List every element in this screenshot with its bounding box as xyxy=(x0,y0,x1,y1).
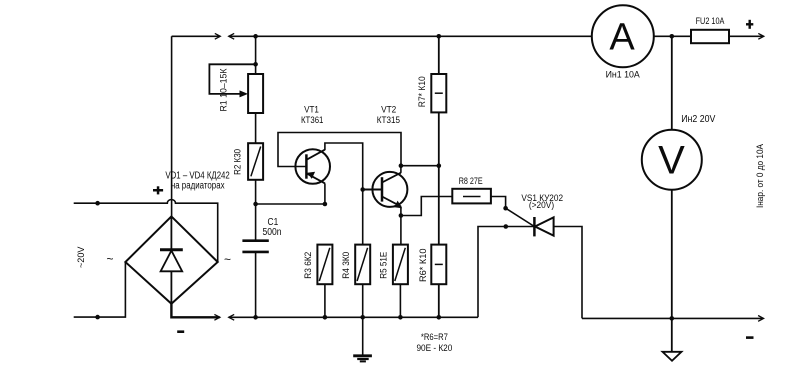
svg-text:R8 27Е: R8 27Е xyxy=(459,176,483,187)
svg-text:КТ315: КТ315 xyxy=(377,115,400,125)
wire R1-R2 lead xyxy=(255,113,257,143)
wire bridge minus to bottom rail xyxy=(171,304,219,318)
resistor R8 xyxy=(452,189,491,204)
node R5 bottom junction xyxy=(398,315,403,320)
wire VS1 anode to bottom rail xyxy=(554,227,582,319)
wire VS1 gate diagonal xyxy=(506,208,535,226)
wire VT2 emitter jog to R8 xyxy=(401,197,452,216)
ground chassis below R4 xyxy=(362,317,364,355)
voltmeter Ин2 circle xyxy=(642,130,702,190)
R1 wiper arrowhead xyxy=(240,90,249,97)
node voltmeter bottom junction xyxy=(670,316,675,321)
svg-text:~: ~ xyxy=(107,252,114,266)
transistor VT1 circle xyxy=(295,149,330,184)
svg-text:R6* К10: R6* К10 xyxy=(418,249,428,283)
resistor R7 xyxy=(431,74,446,112)
node voltmeter tap junction xyxy=(670,34,675,39)
node gate corner xyxy=(503,206,508,211)
node VT2 base junction xyxy=(360,187,365,192)
svg-text:~: ~ xyxy=(224,253,231,267)
svg-text:(>20V): (>20V) xyxy=(529,200,554,211)
resistor R4 xyxy=(355,245,370,285)
svg-text:на радиаторах: на радиаторах xyxy=(171,180,225,191)
connector arrow right-pointing (top rail) xyxy=(215,33,221,39)
wire VT2 collector up xyxy=(400,166,402,173)
wire bottom rail right segment xyxy=(582,317,763,319)
svg-text:Ин1 10А: Ин1 10А xyxy=(606,69,641,80)
connector arrow left-pointing (top rail) xyxy=(229,33,235,39)
earth ground right xyxy=(671,318,673,351)
node VT2 emitter junction xyxy=(399,213,404,218)
wire bottom rail left segment xyxy=(229,316,478,318)
resistor R6 xyxy=(431,245,446,285)
wire VT1 emitter down xyxy=(324,183,326,204)
node VT1 emitter / R3 junction xyxy=(323,202,328,207)
wire VT2 collector to R7 node xyxy=(401,165,439,167)
resistor R1 (potentiometer) xyxy=(248,74,263,113)
VT1 emitter diagonal with arrow xyxy=(306,173,325,183)
wire R8 right to gate xyxy=(491,197,506,209)
label - (bridge) xyxy=(177,330,184,333)
wire R5 bottom lead xyxy=(399,284,401,317)
resistor R3 xyxy=(317,245,332,285)
svg-text:R4 3К0: R4 3К0 xyxy=(341,252,351,279)
minus output arrowhead xyxy=(758,316,764,322)
node on cathode wire xyxy=(504,224,509,229)
wire VT2 base to R4 xyxy=(362,190,364,245)
label - output xyxy=(746,336,754,339)
wire fuse to plus output xyxy=(729,35,764,37)
node R1 top junction xyxy=(253,34,258,39)
wire voltmeter top lead xyxy=(671,36,673,129)
VT1 collector diagonal xyxy=(306,150,325,160)
label + output xyxy=(746,20,753,29)
wire R4 bottom lead xyxy=(362,284,364,317)
wire R7 top lead xyxy=(438,36,440,74)
svg-text:VT1: VT1 xyxy=(304,105,319,115)
svg-text:Iнар. от 0 до 10А: Iнар. от 0 до 10А xyxy=(755,143,766,208)
resistor R2 xyxy=(248,143,263,180)
transistor VT2 circle xyxy=(372,172,407,207)
svg-text:R5 51Е: R5 51Е xyxy=(379,252,389,279)
wire R1 top lead xyxy=(255,36,257,74)
wire R1 wiper loop xyxy=(209,64,255,94)
wire bridge plus vertical xyxy=(171,36,173,216)
node A junction R2/C1 xyxy=(253,202,258,207)
thyristor VS1 cathode bar xyxy=(533,217,536,236)
wire R7 bottom lead xyxy=(438,112,440,165)
connector arrow right-pointing (bottom rail) xyxy=(214,314,220,320)
svg-text:R7* К10: R7* К10 xyxy=(417,76,427,107)
wire bridge axis xyxy=(170,216,172,303)
svg-text:R1 10–15К: R1 10–15К xyxy=(219,68,229,112)
svg-text:А: А xyxy=(609,17,635,59)
VT2 base bar xyxy=(381,177,384,201)
wire node A horizontal xyxy=(256,203,325,205)
wire top rail right segment xyxy=(229,35,592,37)
label + (bridge) xyxy=(153,186,163,194)
ammeter Ин1 circle xyxy=(592,5,654,67)
wire voltmeter bottom lead xyxy=(671,190,673,319)
connector arrow left-pointing (bottom rail) xyxy=(229,314,235,320)
wire top rail left segment xyxy=(172,35,220,37)
VT2 emitter diagonal with arrow xyxy=(382,197,401,207)
node R7 bottom junction xyxy=(437,163,442,168)
node R7 top junction xyxy=(437,34,442,39)
wire VS1 cathode side xyxy=(478,227,534,318)
wire R7 node to R6 xyxy=(438,166,440,245)
wire VT1 base lead loop xyxy=(278,133,401,167)
node AC bottom terminal dot xyxy=(95,315,100,320)
VT1 base bar xyxy=(305,154,308,178)
node VT2 collector junction xyxy=(399,163,404,168)
svg-text:R2 К30: R2 К30 xyxy=(233,149,243,175)
node R6 bottom junction xyxy=(437,315,442,320)
bridge rectifier VD1-VD4 diamond xyxy=(125,216,217,303)
node R3 bottom junction xyxy=(323,315,328,320)
VT2 collector diagonal xyxy=(382,173,401,183)
fuse FU2 xyxy=(691,30,729,43)
plus output arrowhead xyxy=(758,33,764,39)
wire AC top input xyxy=(74,199,218,262)
svg-text:~20V: ~20V xyxy=(76,247,86,269)
svg-text:500n: 500n xyxy=(263,227,282,238)
svg-text:90Е - К20: 90Е - К20 xyxy=(416,343,452,353)
wire R2 bottom lead xyxy=(255,180,257,204)
thyristor VS1 triangle xyxy=(535,217,554,235)
node R4 bottom junction xyxy=(360,315,365,320)
svg-text:R3 6К2: R3 6К2 xyxy=(303,252,313,279)
svg-text:КТ361: КТ361 xyxy=(301,115,323,125)
wire VT2 emitter to R5 xyxy=(400,216,402,245)
wire R3 bottom lead xyxy=(324,284,326,317)
wire VT2 emitter down xyxy=(400,206,402,215)
node R1 wiper loop junction xyxy=(253,62,258,67)
svg-text:VT2: VT2 xyxy=(381,105,396,115)
resistor R5 xyxy=(393,245,408,285)
capacitor C1 xyxy=(255,204,257,241)
wire VT1 collector to VT2 base xyxy=(325,143,363,190)
diode VD inside bridge xyxy=(160,248,183,251)
wire AC bottom input xyxy=(74,262,126,317)
node AC top terminal dot xyxy=(95,201,100,206)
svg-text:V: V xyxy=(658,138,685,182)
svg-text:*R6=R7: *R6=R7 xyxy=(421,332,448,342)
svg-text:FU2 10А: FU2 10А xyxy=(696,16,725,27)
svg-text:Ин2 20V: Ин2 20V xyxy=(681,114,715,125)
wire VT2 base lead xyxy=(363,189,382,191)
node C1 bottom junction xyxy=(253,315,258,320)
wire R6 bottom lead xyxy=(438,284,440,317)
wire ammeter to fuse xyxy=(654,35,691,37)
